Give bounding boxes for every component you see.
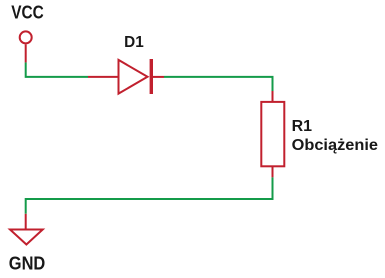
svg-text:D1: D1	[124, 34, 144, 51]
svg-text:VCC: VCC	[11, 3, 44, 23]
svg-text:Obciążenie: Obciążenie	[292, 137, 378, 154]
svg-text:R1: R1	[292, 118, 313, 135]
svg-text:GND: GND	[9, 254, 46, 274]
